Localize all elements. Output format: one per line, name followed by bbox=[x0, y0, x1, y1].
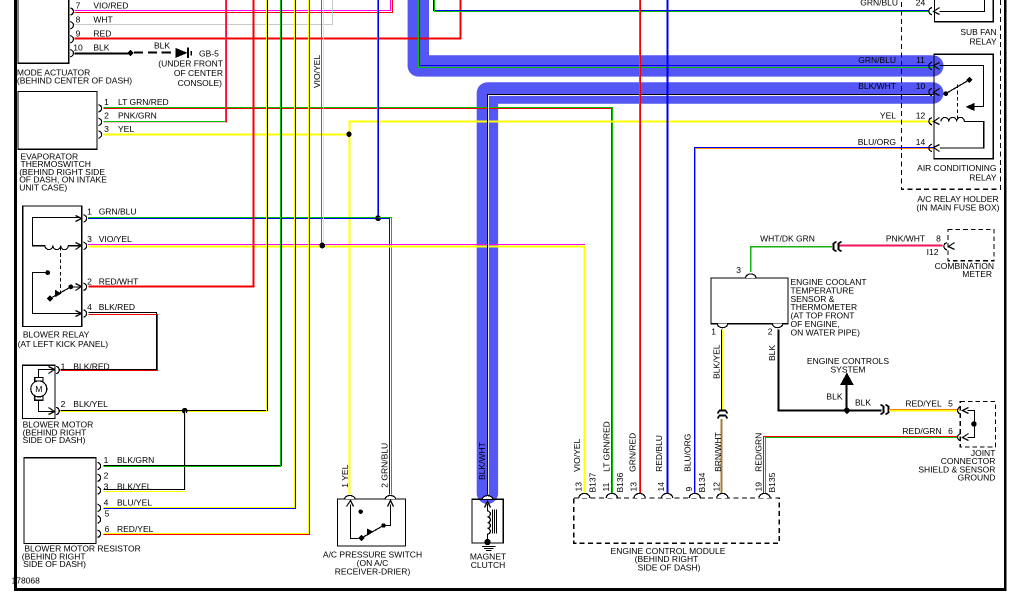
label evaporator thermoswitch bbox=[19, 151, 107, 192]
svg-text:13: 13 bbox=[573, 482, 583, 492]
wire BLK/GRN resistor pin 1 bbox=[104, 0, 282, 467]
svg-text:GRN/RED: GRN/RED bbox=[627, 433, 637, 472]
label blower relay bbox=[18, 329, 109, 349]
resistor pin 5 bbox=[98, 508, 110, 523]
junction dot YEL bbox=[346, 132, 351, 137]
a/c pressure switch internals bbox=[347, 501, 394, 542]
svg-text:BLK: BLK bbox=[826, 391, 842, 401]
svg-text:LT GRN/RED: LT GRN/RED bbox=[118, 97, 169, 107]
svg-text:GRN/BLU: GRN/BLU bbox=[858, 55, 896, 65]
svg-text:3: 3 bbox=[104, 482, 109, 492]
svg-text:GRN/BLU: GRN/BLU bbox=[860, 0, 898, 7]
ECM rotated pin numbers bbox=[573, 482, 763, 492]
svg-text:1: 1 bbox=[104, 97, 109, 107]
label BLK on ground wire bbox=[154, 41, 170, 51]
wire RED/BLU vertical to ECM pin 14 bbox=[667, 0, 669, 494]
a/c relay holder dashed box bbox=[902, 0, 1001, 189]
svg-text:5: 5 bbox=[948, 399, 953, 409]
magnet clutch pin bump bbox=[482, 496, 492, 500]
svg-text:2: 2 bbox=[87, 277, 92, 287]
svg-text:RED/BLU: RED/BLU bbox=[654, 435, 664, 472]
svg-text:10: 10 bbox=[73, 43, 83, 53]
svg-text:RED/GRN: RED/GRN bbox=[902, 426, 941, 436]
combination meter pin 8 bbox=[927, 234, 955, 257]
blower relay box bbox=[23, 206, 82, 327]
junction dot GRN/BLU bbox=[375, 215, 381, 221]
svg-text:14: 14 bbox=[916, 137, 926, 147]
ECM bump pin 13b bbox=[634, 493, 645, 498]
svg-text:4: 4 bbox=[104, 497, 109, 507]
blower relay pin 3 label bbox=[84, 234, 133, 250]
svg-text:9: 9 bbox=[684, 487, 694, 492]
svg-text:13: 13 bbox=[629, 482, 639, 492]
junction dot BLK/YEL bbox=[182, 408, 188, 414]
svg-text:2: 2 bbox=[104, 471, 109, 481]
svg-text:VIO/RED: VIO/RED bbox=[93, 1, 128, 11]
svg-text:BLK/RED: BLK/RED bbox=[73, 361, 109, 371]
svg-text:2: 2 bbox=[768, 327, 773, 337]
svg-text:CLUTCH: CLUTCH bbox=[471, 560, 505, 570]
label engine control module bbox=[611, 546, 726, 573]
svg-text:BLK/GRN: BLK/GRN bbox=[117, 455, 154, 465]
svg-text:GB-5: GB-5 bbox=[199, 48, 219, 58]
label RED/YEL bbox=[905, 399, 953, 409]
label BLK at arrow bbox=[826, 391, 842, 401]
svg-text:1: 1 bbox=[711, 327, 716, 337]
inline connector on sensor pin 1 wire bbox=[718, 411, 728, 419]
blower relay pin 2 label bbox=[84, 277, 139, 291]
svg-text:14: 14 bbox=[656, 482, 666, 492]
wire BLK/WHT inside band relay pin 10 to magnet clutch bbox=[488, 95, 934, 495]
ECM bump pin 9 bbox=[689, 493, 700, 498]
wire YEL evaporator pin 3 bbox=[103, 134, 348, 136]
dashed BLK wire to GB-5 bbox=[134, 52, 175, 54]
svg-text:RED/YEL: RED/YEL bbox=[905, 399, 942, 409]
mode actuator pin 9 bbox=[70, 29, 111, 43]
svg-text:M: M bbox=[35, 384, 42, 394]
svg-text:SIDE OF DASH): SIDE OF DASH) bbox=[23, 559, 86, 569]
sensor pin 2 bump bbox=[768, 324, 783, 337]
svg-text:SUB FAN: SUB FAN bbox=[960, 27, 996, 37]
wire GRN/BLU blower relay pin 1 bbox=[88, 218, 375, 219]
svg-text:AIR CONDITIONING: AIR CONDITIONING bbox=[917, 163, 996, 173]
mode actuator box bbox=[18, 0, 69, 63]
ECM bump pin 11 bbox=[606, 493, 617, 498]
wire BLK/YEL coolant sensor pin 1 bbox=[722, 330, 723, 410]
engine control module dashed box bbox=[574, 498, 780, 543]
junction diamond BLK bbox=[843, 407, 851, 415]
svg-text:BRN/WHT: BRN/WHT bbox=[713, 432, 723, 472]
label a/c relay holder bbox=[916, 194, 999, 212]
label GB-5 bbox=[199, 48, 219, 58]
ECM bump pin 13 bbox=[579, 493, 590, 498]
wire PNK/WHT connector to combination meter pin 8 bbox=[840, 245, 943, 247]
wire GRN/BLU vertical from top to junction bbox=[378, 0, 379, 216]
rotated label 1 YEL bbox=[340, 464, 350, 487]
ECM bump pin 12 bbox=[717, 493, 728, 498]
svg-text:4: 4 bbox=[87, 302, 92, 312]
svg-text:1: 1 bbox=[87, 207, 92, 217]
svg-text:5: 5 bbox=[105, 508, 110, 518]
magnet clutch ground bbox=[482, 547, 496, 551]
svg-text:1 YEL: 1 YEL bbox=[340, 464, 350, 487]
svg-text:RECEIVER-DRIER): RECEIVER-DRIER) bbox=[335, 566, 411, 576]
svg-text:2: 2 bbox=[104, 111, 109, 121]
joint connector dashed box bbox=[960, 402, 995, 447]
label BLK at connector bbox=[855, 398, 871, 408]
a/c pressure switch box bbox=[337, 499, 405, 546]
svg-text:BLK/YEL: BLK/YEL bbox=[711, 344, 721, 379]
svg-text:BLK/RED: BLK/RED bbox=[99, 302, 135, 312]
diagram number 178068 bbox=[12, 575, 41, 585]
svg-text:10: 10 bbox=[916, 81, 926, 91]
wire RED/WHT blower relay pin 2 bbox=[89, 0, 254, 287]
engine coolant temp sensor box bbox=[711, 278, 788, 324]
svg-text:BLK/WHT: BLK/WHT bbox=[477, 442, 487, 480]
label RED/GRN bbox=[902, 426, 953, 436]
svg-text:(BEHIND CENTER OF DASH): (BEHIND CENTER OF DASH) bbox=[17, 75, 132, 85]
wire WHT/DK GRN coolant sensor pin 3 to connector bbox=[750, 245, 832, 273]
svg-text:(UNDER FRONT: (UNDER FRONT bbox=[158, 59, 223, 69]
svg-text:GROUND: GROUND bbox=[958, 473, 996, 483]
ECM rotated connector ids bbox=[587, 472, 777, 492]
resistor pin 1 bbox=[98, 455, 155, 470]
rotated label BLK/WHT bbox=[477, 442, 487, 480]
wire BLK up to engine controls system arrow bbox=[846, 384, 848, 410]
svg-text:6: 6 bbox=[948, 426, 953, 436]
svg-text:6: 6 bbox=[105, 524, 110, 534]
svg-text:BLOWER RELAY: BLOWER RELAY bbox=[23, 329, 90, 339]
wire VIO/YEL vertical from top to junction bbox=[322, 0, 324, 243]
wire VIO/YEL blower relay pin 3 to ECM pin 13 bbox=[88, 245, 585, 494]
svg-text:BLU/ORG: BLU/ORG bbox=[858, 137, 896, 147]
svg-text:WHT: WHT bbox=[93, 15, 112, 25]
svg-text:19: 19 bbox=[753, 482, 763, 492]
svg-text:BLU/YEL: BLU/YEL bbox=[117, 497, 152, 507]
svg-text:BLK/YEL: BLK/YEL bbox=[117, 482, 152, 492]
highlighted circuit band GRN/BLU to A/C relay pin 11 bbox=[418, 0, 933, 66]
svg-text:(IN MAIN FUSE BOX): (IN MAIN FUSE BOX) bbox=[916, 202, 999, 212]
sensor pin 3 bump bbox=[736, 265, 756, 278]
magnet clutch coil bbox=[484, 502, 496, 546]
blower motor pin 1 bbox=[56, 361, 109, 373]
svg-text:RELAY: RELAY bbox=[969, 173, 997, 183]
wire GRN/BLU inside band to A/C relay pin 11 bbox=[419, 0, 934, 68]
label PNK/WHT bbox=[886, 234, 925, 244]
blower motor pin 2 bbox=[56, 399, 108, 415]
svg-text:2 GRN/BLU: 2 GRN/BLU bbox=[380, 443, 390, 488]
rotated label BLK sensor pin 2 bbox=[767, 345, 777, 361]
label engine controls system bbox=[807, 356, 890, 375]
rotated label BLK/YEL bbox=[711, 344, 721, 379]
blower relay coil bbox=[32, 243, 82, 250]
wire BLK/YEL blower motor pin 2 bbox=[61, 0, 268, 412]
resistor pin 4 bbox=[98, 497, 153, 511]
label WHT/DK GRN bbox=[760, 233, 815, 243]
mode actuator pin 7 bbox=[70, 1, 128, 16]
label air conditioning relay bbox=[917, 163, 997, 183]
svg-text:YEL: YEL bbox=[118, 124, 134, 134]
svg-text:I12: I12 bbox=[927, 247, 939, 257]
svg-text:METER: METER bbox=[962, 269, 992, 279]
a/c relay mechanical link dashed bbox=[957, 85, 959, 120]
svg-text:9: 9 bbox=[76, 29, 81, 39]
svg-text:WHT/DK GRN: WHT/DK GRN bbox=[760, 233, 815, 243]
wire YEL jog and run to A/C relay pin 12 bbox=[350, 122, 933, 135]
junction on BLK ground wire bbox=[127, 50, 133, 56]
wire WHT from mode actuator pin 8 bbox=[75, 0, 333, 25]
wire BLK/RED blower relay pin 4 to blower motor pin 1 bbox=[61, 313, 158, 371]
svg-text:VIO/YEL: VIO/YEL bbox=[572, 439, 582, 472]
svg-text:RED/GRN: RED/GRN bbox=[754, 433, 764, 472]
resistor pin 6 bbox=[98, 524, 154, 537]
svg-text:B134: B134 bbox=[697, 472, 707, 492]
wire BLK coolant sensor pin 2 bbox=[779, 330, 882, 411]
wire BLU/ORG A/C relay pin 14 to ECM pin 9 bbox=[695, 148, 934, 494]
magnet clutch box bbox=[472, 499, 503, 543]
inline connector on BLK / RED-YEL wire bbox=[881, 405, 889, 415]
svg-text:UNIT CASE): UNIT CASE) bbox=[19, 182, 67, 192]
resistor pin 2 bbox=[98, 471, 109, 482]
svg-text:VIO/YEL: VIO/YEL bbox=[99, 234, 132, 244]
a/c relay pin 12 bbox=[880, 110, 940, 125]
rotated label 2 GRN/BLU bbox=[380, 443, 390, 488]
sensor pin 1 bump bbox=[711, 324, 727, 337]
resistor pin 3 bbox=[98, 482, 152, 495]
inline connector C-C on meter wire bbox=[834, 242, 842, 252]
evaporator pin 3 bbox=[99, 124, 135, 138]
svg-text:11: 11 bbox=[601, 482, 611, 491]
svg-text:24: 24 bbox=[916, 0, 926, 7]
wire RED/YEL resistor pin 6 bbox=[104, 0, 310, 535]
wire BLK from mode actuator pin 10 to ground GB-5 bbox=[75, 53, 131, 55]
svg-text:2: 2 bbox=[61, 399, 66, 409]
ECM bump pin 19 bbox=[759, 493, 770, 498]
sub fan relay pin 24 bbox=[860, 0, 939, 15]
ground symbol GB-5 bbox=[176, 48, 192, 59]
label blower motor resistor bbox=[22, 544, 141, 570]
label mode actuator bbox=[17, 68, 132, 86]
svg-text:GRN/BLU: GRN/BLU bbox=[99, 207, 137, 217]
svg-text:B137: B137 bbox=[587, 472, 597, 492]
wire PNK/GRN evaporator pin 2 bbox=[104, 0, 227, 123]
a/c relay internal pin 11 wire bbox=[940, 66, 984, 111]
a/c pressure switch pin 1 bump bbox=[345, 496, 355, 500]
rotated label VIO/YEL vertical bbox=[312, 55, 322, 88]
svg-text:SIDE OF DASH): SIDE OF DASH) bbox=[23, 435, 86, 445]
a/c pressure switch pin 2 bump bbox=[385, 496, 395, 500]
label sub fan relay bbox=[960, 27, 997, 47]
svg-text:PNK/WHT: PNK/WHT bbox=[886, 234, 925, 244]
svg-text:BLK: BLK bbox=[154, 41, 170, 51]
svg-text:RELAY: RELAY bbox=[969, 37, 997, 47]
a/c relay pin 11 bbox=[858, 55, 939, 70]
svg-text:BLK: BLK bbox=[855, 398, 871, 408]
mode actuator pin 8 bbox=[70, 15, 112, 29]
svg-text:YEL: YEL bbox=[880, 110, 896, 120]
joint connector pin 6 bbox=[958, 434, 969, 441]
svg-text:CONSOLE): CONSOLE) bbox=[178, 78, 223, 88]
svg-text:RED/WHT: RED/WHT bbox=[99, 277, 139, 287]
svg-text:BLK: BLK bbox=[767, 345, 777, 361]
highlighted circuit band BLK/WHT relay pin 10 to magnet clutch bbox=[487, 93, 932, 493]
svg-text:7: 7 bbox=[76, 1, 81, 11]
svg-text:OF CENTER: OF CENTER bbox=[174, 68, 223, 78]
label blower motor bbox=[23, 420, 94, 445]
ECM rotated wire labels bbox=[572, 421, 764, 472]
wire RED from mode actuator pin 9 bbox=[75, 0, 461, 39]
svg-text:LT GRN/RED: LT GRN/RED bbox=[602, 421, 612, 472]
svg-text:PNK/GRN: PNK/GRN bbox=[118, 111, 157, 121]
junction dot VIO/YEL bbox=[320, 243, 326, 249]
svg-text:ON WATER PIPE): ON WATER PIPE) bbox=[791, 327, 861, 337]
blower relay pin 4 label bbox=[84, 302, 136, 317]
svg-text:12: 12 bbox=[711, 482, 721, 492]
wire GRN/BLU to sub fan relay pin 24 bbox=[434, 0, 929, 12]
svg-text:1: 1 bbox=[61, 361, 66, 371]
svg-text:3: 3 bbox=[736, 265, 741, 275]
joint connector pin 5 bbox=[958, 407, 969, 414]
svg-text:BLK/WHT: BLK/WHT bbox=[858, 81, 896, 91]
label magnet clutch bbox=[470, 551, 506, 570]
ECM bump pin 14 bbox=[662, 493, 673, 498]
combination meter dashed box bbox=[948, 229, 994, 260]
wire BLK/YEL junction down to resistor pin 3 bbox=[104, 412, 186, 492]
svg-text:RED/YEL: RED/YEL bbox=[117, 524, 154, 534]
a/c relay pin 10 bbox=[858, 81, 939, 96]
mode actuator pin 10 bbox=[70, 43, 109, 57]
joint connector internal bbox=[968, 411, 977, 438]
svg-text:B135: B135 bbox=[767, 472, 777, 492]
blower motor symbol bbox=[31, 367, 55, 415]
svg-text:8: 8 bbox=[76, 15, 81, 25]
air conditioning relay box bbox=[934, 54, 993, 159]
svg-text:3: 3 bbox=[104, 124, 109, 134]
wire RED/YEL to joint connector pin 5 bbox=[889, 410, 958, 411]
svg-text:1: 1 bbox=[104, 455, 109, 465]
label a/c pressure switch bbox=[323, 550, 422, 577]
a/c relay switch arm bbox=[943, 77, 972, 96]
wire BRN/WHT to ECM pin 12 bbox=[721, 419, 723, 494]
svg-text:B136: B136 bbox=[615, 472, 625, 492]
svg-text:BLK/YEL: BLK/YEL bbox=[73, 399, 108, 409]
svg-text:12: 12 bbox=[916, 110, 926, 120]
svg-text:(AT LEFT KICK PANEL): (AT LEFT KICK PANEL) bbox=[18, 339, 109, 349]
label combination meter bbox=[935, 261, 994, 279]
off-page arrow to engine controls system bbox=[841, 374, 853, 385]
svg-text:3: 3 bbox=[87, 234, 92, 244]
evaporator pin 1 bbox=[99, 97, 169, 112]
svg-text:SYSTEM: SYSTEM bbox=[831, 365, 866, 375]
a/c relay coil bbox=[940, 117, 984, 147]
evaporator thermoswitch box bbox=[18, 92, 97, 150]
label engine coolant temperature sensor bbox=[791, 277, 867, 337]
svg-text:11: 11 bbox=[916, 55, 925, 65]
evaporator pin 2 bbox=[99, 111, 157, 126]
wire VIO/RED from mode actuator pin 7 bbox=[75, 0, 393, 13]
blower relay mechanical link dashed bbox=[60, 247, 62, 296]
blower motor resistor box bbox=[24, 458, 96, 544]
svg-text:RED: RED bbox=[93, 29, 111, 39]
wire GRN/RED vertical to ECM pin 13b bbox=[640, 0, 641, 494]
svg-text:BLK: BLK bbox=[93, 43, 109, 53]
wire BLU/YEL resistor pin 4 bbox=[104, 0, 296, 509]
wire YEL down to A/C pressure switch pin 1 bbox=[349, 134, 351, 494]
blower relay fixed contact bbox=[33, 270, 82, 316]
label joint connector shield and sensor ground bbox=[918, 448, 995, 483]
blower relay internal wire pin 1 bbox=[33, 216, 82, 246]
wire GRN/BLU jog down to A/C pressure switch pin 2 bbox=[379, 218, 392, 495]
blower relay pin 1 label bbox=[84, 207, 137, 223]
svg-text:SIDE OF DASH): SIDE OF DASH) bbox=[638, 563, 701, 573]
sub fan relay box bbox=[934, 0, 993, 22]
blower relay moving contact bbox=[47, 284, 82, 303]
svg-text:BLU/ORG: BLU/ORG bbox=[683, 434, 693, 472]
svg-text:VIO/YEL: VIO/YEL bbox=[312, 55, 322, 88]
blower motor box bbox=[23, 365, 56, 418]
label under front of center console bbox=[158, 59, 223, 88]
wire LT GRN/RED evaporator pin 1 to ECM pin 11 bbox=[104, 108, 613, 494]
a/c relay pin 14 bbox=[858, 137, 940, 152]
wire RED/GRN joint connector pin 6 to ECM pin 19 bbox=[764, 437, 958, 494]
svg-text:8: 8 bbox=[936, 234, 941, 244]
